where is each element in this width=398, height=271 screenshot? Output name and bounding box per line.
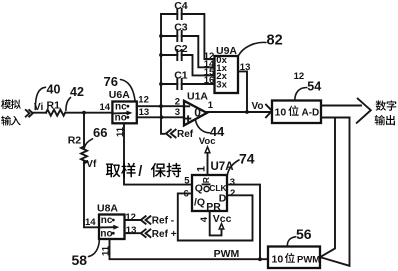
- svg-text:12: 12: [138, 95, 149, 106]
- svg-text:13: 13: [126, 225, 137, 236]
- svg-text:Ref +: Ref +: [152, 229, 177, 240]
- svg-text:5: 5: [184, 176, 190, 187]
- leader 40: [35, 87, 45, 109]
- capacitor C2: [161, 43, 215, 75]
- wire U7A pin4 to Vcc arrow: [210, 211, 222, 235]
- svg-text:10: 10: [272, 253, 284, 265]
- adc U54: 10-bit A-D block: [272, 101, 321, 124]
- leader 42: [66, 98, 71, 111]
- A-D input arrowhead: [266, 105, 272, 118]
- node junction Ref branch: [160, 115, 164, 119]
- svg-text:Q: Q: [195, 182, 203, 194]
- svg-text:13: 13: [139, 107, 150, 118]
- svg-text:56: 56: [296, 226, 312, 242]
- wire U8A pin11 to PWM box (PWM line): [110, 239, 269, 259]
- leader 54: [295, 88, 307, 101]
- op-amp U1A: [184, 91, 208, 126]
- leader 74: [227, 160, 239, 175]
- svg-text:42: 42: [70, 85, 84, 99]
- analog switch U6A: [109, 89, 137, 124]
- svg-text:3: 3: [230, 177, 235, 188]
- node junction C2: [159, 53, 163, 57]
- svg-text:U1A: U1A: [187, 91, 208, 103]
- svg-text:58: 58: [72, 252, 88, 268]
- svg-text:3: 3: [175, 107, 180, 118]
- wire U9A pin13 to Vo node: [238, 71, 247, 112]
- svg-text:54: 54: [307, 80, 321, 94]
- svg-text:4: 4: [199, 216, 210, 222]
- svg-text:nc: nc: [101, 215, 113, 226]
- svg-text:82: 82: [267, 33, 283, 49]
- wire op-amp output to A-D: [207, 111, 271, 113]
- svg-text:PWM: PWM: [297, 254, 320, 265]
- leader 82: [238, 42, 266, 55]
- wire U6A no to op-amp pin 3: [137, 116, 184, 118]
- flip-flop U7A: [192, 161, 234, 213]
- svg-text:14: 14: [100, 102, 111, 113]
- wire Vi to R1: [34, 112, 47, 114]
- svg-text:nc: nc: [115, 102, 127, 113]
- analog switch U8A: [97, 202, 125, 239]
- svg-text:1: 1: [208, 100, 214, 111]
- svg-text:/Q: /Q: [194, 197, 205, 209]
- wire U6A pin11 down to U7A Q: [124, 123, 192, 184]
- wire U7A /Q to D feedback loop: [178, 193, 253, 240]
- capacitor C3: [161, 22, 215, 68]
- input terminal chevron: [26, 110, 33, 117]
- digital output bus: [321, 105, 361, 107]
- svg-text:Voc: Voc: [199, 136, 216, 147]
- node Vcc: [219, 224, 224, 229]
- node junction C3: [159, 34, 163, 38]
- wire Vf to U8A pin14: [84, 161, 99, 227]
- svg-text:3x: 3x: [216, 79, 227, 90]
- wire U8A no to Ref+: [125, 232, 140, 234]
- analog mux U9A: [215, 45, 239, 93]
- node 数字输出 (digital output label): [375, 100, 397, 125]
- node Ref (op-amp): [166, 130, 176, 138]
- svg-text:no: no: [100, 229, 112, 240]
- svg-text:14: 14: [85, 217, 96, 228]
- svg-text:12: 12: [294, 71, 305, 82]
- svg-text:10: 10: [275, 106, 287, 118]
- leader 66: [84, 139, 92, 148]
- wire R1 to U6A pin14: [65, 112, 112, 114]
- wire U8A nc to Ref-: [125, 219, 140, 221]
- node 模拟输入 (analog input label): [1, 99, 21, 125]
- capacitor C1: [161, 70, 215, 89]
- node Ref+: [141, 229, 151, 237]
- svg-text:0: 0: [194, 106, 201, 120]
- svg-text:Vo: Vo: [252, 101, 264, 112]
- digital output arrowhead: [357, 99, 371, 123]
- svg-text:U6A: U6A: [109, 89, 130, 101]
- wire U6A nc to op-amp pin 2: [137, 105, 184, 107]
- wire bus branch to PWM (right): [321, 118, 350, 266]
- svg-text:40: 40: [47, 82, 61, 96]
- leader 44: [195, 119, 209, 133]
- svg-text:1: 1: [195, 166, 207, 172]
- svg-text:12: 12: [125, 212, 136, 223]
- svg-text:74: 74: [239, 150, 255, 166]
- node junction R1/R2: [82, 111, 86, 115]
- svg-text:2: 2: [230, 188, 235, 199]
- wire U7A pin1 to Voc arrow: [207, 152, 209, 175]
- svg-text:Vcc: Vcc: [213, 213, 232, 225]
- svg-text:no: no: [115, 113, 127, 124]
- wire bus branch to PWM (left): [321, 118, 335, 257]
- svg-text:Ref: Ref: [177, 129, 194, 140]
- node junction inverting input: [159, 104, 163, 108]
- svg-text:16: 16: [204, 75, 215, 86]
- leader 58: [89, 241, 100, 257]
- svg-text:U8A: U8A: [97, 202, 118, 214]
- svg-text:PWM: PWM: [214, 248, 240, 260]
- node Vo: [245, 110, 249, 114]
- svg-text:A-D: A-D: [302, 107, 320, 118]
- node junction CLK/PWM: [258, 257, 262, 261]
- node 取样/保持 (sample/hold label): [106, 163, 181, 180]
- svg-text:2: 2: [175, 96, 180, 107]
- svg-text:Ref -: Ref -: [152, 216, 174, 227]
- node Ref-: [141, 216, 151, 224]
- svg-text:Vf: Vf: [86, 159, 97, 170]
- svg-text:76: 76: [104, 74, 118, 89]
- svg-text:D: D: [219, 193, 227, 205]
- capacitor feedback bus (left vertical): [161, 14, 165, 134]
- pwm U56: 10-bit PWM block: [268, 247, 320, 269]
- svg-text:/: /: [138, 164, 142, 180]
- capacitor C4: [161, 0, 215, 59]
- svg-text:R2: R2: [68, 135, 82, 147]
- leader 56: [287, 237, 295, 246]
- wire U7A CLK to PWM line: [227, 185, 260, 260]
- svg-text:66: 66: [93, 125, 107, 140]
- node junction C1: [159, 82, 163, 86]
- leader 76: [121, 80, 136, 101]
